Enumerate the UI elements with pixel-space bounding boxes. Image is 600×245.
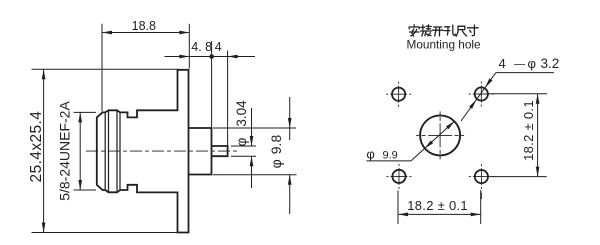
svg-text:25.4x25.4: 25.4x25.4 bbox=[28, 111, 45, 183]
svg-text:3.04: 3.04 bbox=[234, 100, 249, 127]
svg-text:4: 4 bbox=[499, 56, 506, 71]
svg-text:5/8-24UNEF-2A: 5/8-24UNEF-2A bbox=[56, 101, 72, 201]
svg-text:18.8: 18.8 bbox=[132, 19, 156, 33]
svg-text:—: — bbox=[514, 59, 525, 71]
svg-text:φ: φ bbox=[366, 146, 374, 161]
svg-text:φ: φ bbox=[528, 56, 536, 71]
svg-text:4: 4 bbox=[215, 40, 222, 54]
svg-text:18.2 ± 0.1: 18.2 ± 0.1 bbox=[407, 198, 468, 213]
svg-text:9.9: 9.9 bbox=[383, 149, 398, 161]
svg-text:Mounting hole: Mounting hole bbox=[407, 37, 482, 51]
svg-text:9.8: 9.8 bbox=[268, 135, 284, 155]
svg-text:3.2: 3.2 bbox=[541, 56, 560, 71]
svg-text:18.2 ± 0.1: 18.2 ± 0.1 bbox=[521, 100, 536, 161]
svg-text:φ: φ bbox=[234, 137, 249, 146]
svg-text:4. 8: 4. 8 bbox=[191, 40, 212, 54]
svg-text:φ: φ bbox=[268, 159, 284, 168]
